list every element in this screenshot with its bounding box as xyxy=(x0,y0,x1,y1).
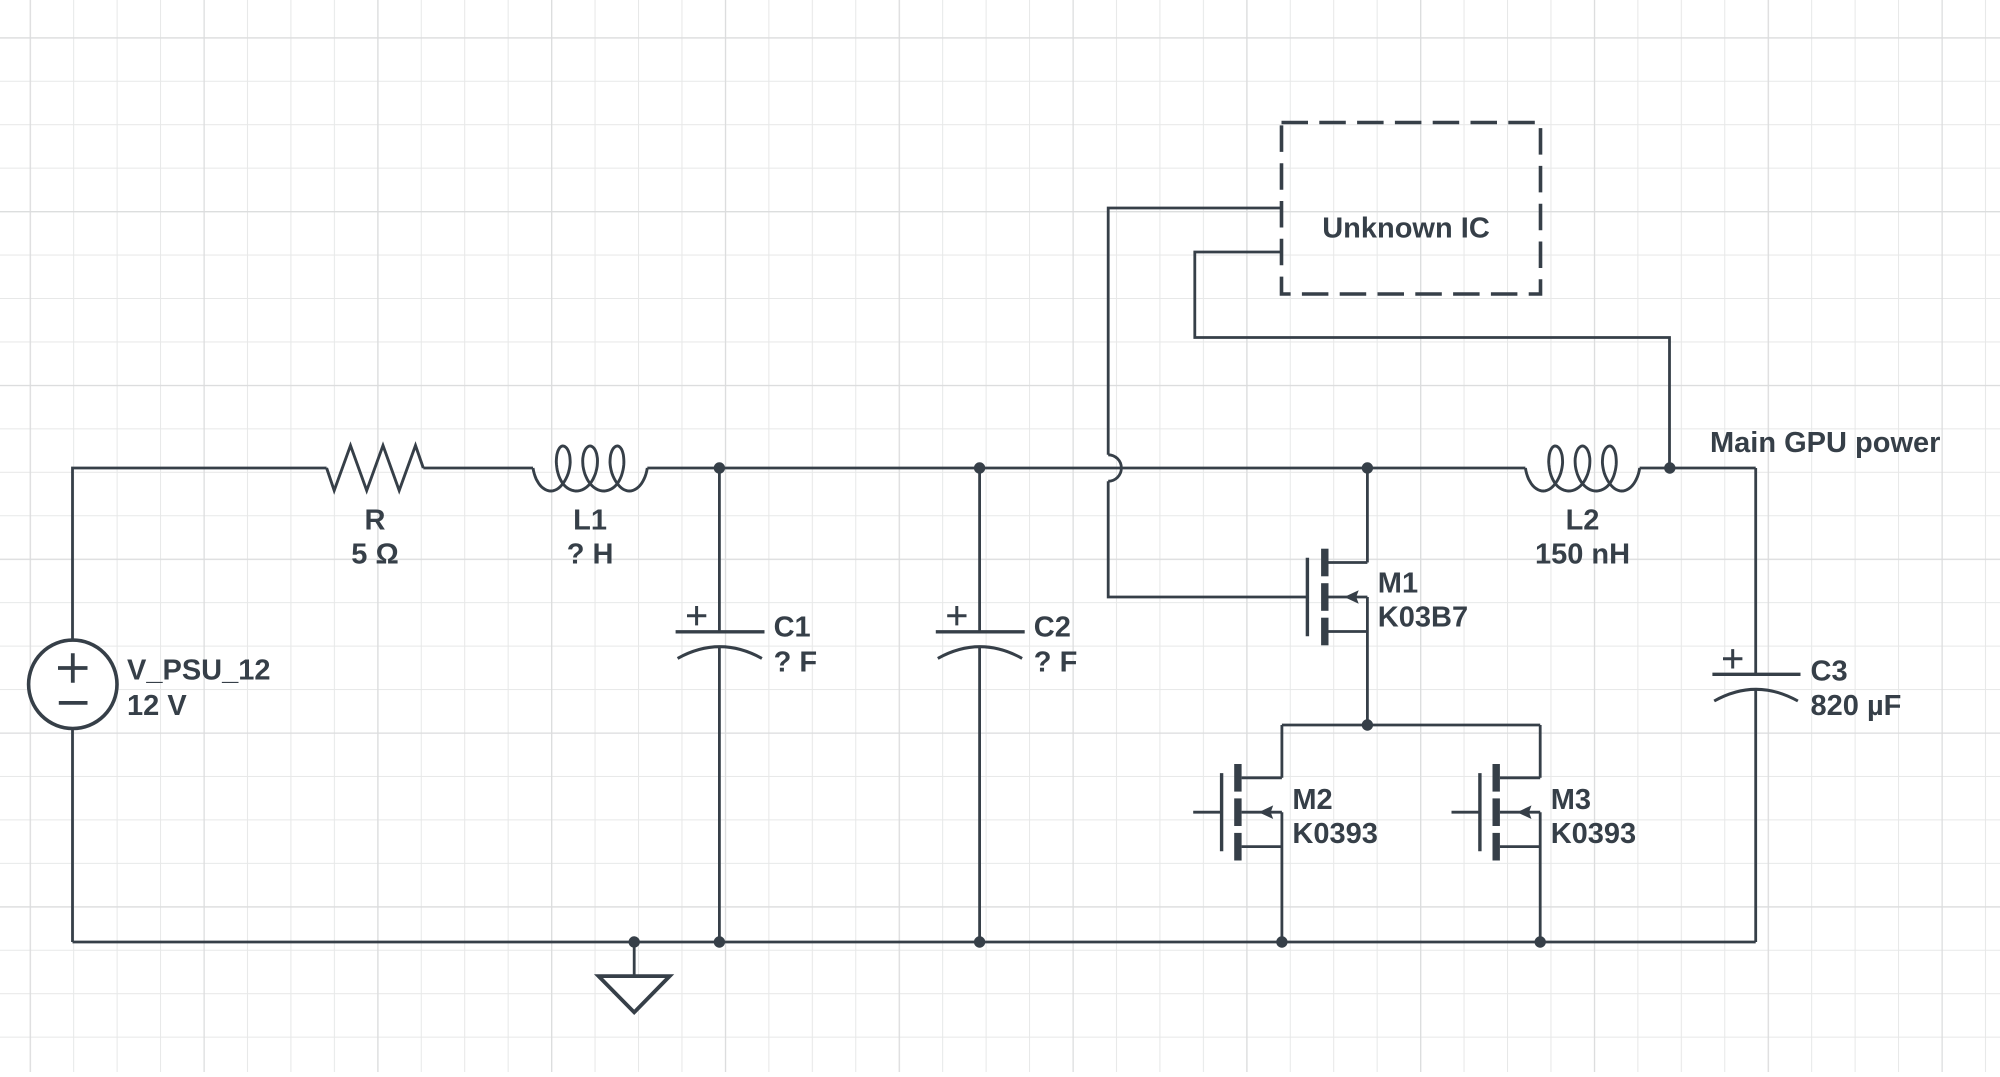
svg-text:C2: C2 xyxy=(1034,612,1071,644)
node M3 source junction xyxy=(1535,936,1546,947)
label V_PSU_12 value xyxy=(127,655,271,722)
wire C2 bottom lead xyxy=(978,648,981,943)
wire Unknown IC pin1 to M1 gate (with hop over main rail) xyxy=(1108,208,1281,455)
label M1 value xyxy=(1378,568,1468,634)
label M2 value xyxy=(1292,784,1377,850)
wire C3 bottom lead xyxy=(1754,691,1757,943)
wire M1 source lead down to M2-M3 drain bus xyxy=(1366,597,1369,725)
svg-text:150 nH: 150 nH xyxy=(1535,539,1630,571)
svg-text:R: R xyxy=(365,504,386,536)
wire C2 top lead xyxy=(978,468,981,632)
node C1 bottom junction xyxy=(714,936,725,947)
wire M3 source lead xyxy=(1539,812,1542,942)
svg-text:L2: L2 xyxy=(1566,504,1600,536)
svg-text:M2: M2 xyxy=(1292,784,1332,816)
svg-text:M1: M1 xyxy=(1378,568,1418,600)
node M1 drain junction xyxy=(1362,462,1373,473)
resistor R xyxy=(327,446,424,491)
wire V_PSU_12 minus terminal to bottom ground rail xyxy=(71,729,74,943)
node C1 top junction xyxy=(714,462,725,473)
label C1 value xyxy=(774,612,818,679)
node M1 source junction xyxy=(1362,719,1373,730)
svg-text:? H: ? H xyxy=(567,539,614,571)
capacitor C3 xyxy=(1712,649,1800,701)
svg-text:K0393: K0393 xyxy=(1551,818,1636,850)
label L2 value xyxy=(1535,504,1630,570)
wire M2-M3 drain bus xyxy=(1282,724,1540,727)
label L1 value xyxy=(567,504,614,570)
svg-text:C3: C3 xyxy=(1811,655,1848,687)
label C2 value xyxy=(1034,612,1078,679)
svg-text:Unknown IC: Unknown IC xyxy=(1322,213,1490,245)
wire hop over main rail xyxy=(1108,455,1121,481)
voltage source V_PSU_12 xyxy=(29,640,117,728)
svg-text:M3: M3 xyxy=(1551,784,1591,816)
svg-text:5 Ω: 5 Ω xyxy=(351,539,398,571)
svg-text:? F: ? F xyxy=(774,647,818,679)
wire M2 source lead xyxy=(1281,812,1284,942)
wire resistor R to inductor L1 xyxy=(423,467,533,470)
label M3 value xyxy=(1551,784,1636,850)
wire M1 drain node to inductor L2 xyxy=(1367,467,1525,470)
wire C1 bottom lead xyxy=(718,648,721,943)
Unknown IC dashed box xyxy=(1282,123,1541,295)
inductor L2 xyxy=(1525,446,1639,491)
node C2 top junction xyxy=(974,462,985,473)
svg-text:? F: ? F xyxy=(1034,647,1078,679)
wire C1 top lead xyxy=(718,468,721,632)
capacitor C1 xyxy=(676,606,765,658)
wire V_PSU_12 plus terminal to resistor R xyxy=(73,468,327,640)
wire M1 drain lead xyxy=(1366,468,1369,563)
wire Unknown IC pin2 to feedback node right of L2 xyxy=(1195,252,1670,468)
wire M2 drain lead xyxy=(1281,725,1284,778)
inductor L1 xyxy=(533,446,647,491)
wire M3 drain lead xyxy=(1539,725,1542,778)
wire L1 to M1 drain node (main rail through C1 C2 nodes) xyxy=(647,467,1367,470)
node ground tap junction xyxy=(629,936,640,947)
transistor M2 xyxy=(1193,764,1282,861)
wire C3 top lead xyxy=(1754,468,1757,674)
label R value xyxy=(351,504,398,570)
svg-text:Main GPU power: Main GPU power xyxy=(1710,427,1940,459)
capacitor C2 xyxy=(936,606,1025,658)
svg-text:K03B7: K03B7 xyxy=(1378,602,1468,634)
node feedback junction right of L2 xyxy=(1664,462,1675,473)
node M2 source junction xyxy=(1276,936,1287,947)
wire L2 to C3 corner (through feedback node) xyxy=(1640,467,1756,470)
svg-text:12 V: 12 V xyxy=(127,690,187,722)
svg-text:L1: L1 xyxy=(573,504,607,536)
node C2 bottom junction xyxy=(974,936,985,947)
svg-text:C1: C1 xyxy=(774,612,811,644)
label C3 value xyxy=(1811,655,1902,722)
transistor M3 xyxy=(1452,764,1541,861)
svg-text:K0393: K0393 xyxy=(1292,818,1377,850)
ground xyxy=(599,942,670,1012)
wire hop to M1 gate lead xyxy=(1108,481,1307,597)
wire bottom ground rail xyxy=(73,941,1756,944)
transistor M1 xyxy=(1307,549,1367,646)
svg-text:V_PSU_12: V_PSU_12 xyxy=(127,655,271,687)
svg-text:820 µF: 820 µF xyxy=(1811,690,1902,722)
